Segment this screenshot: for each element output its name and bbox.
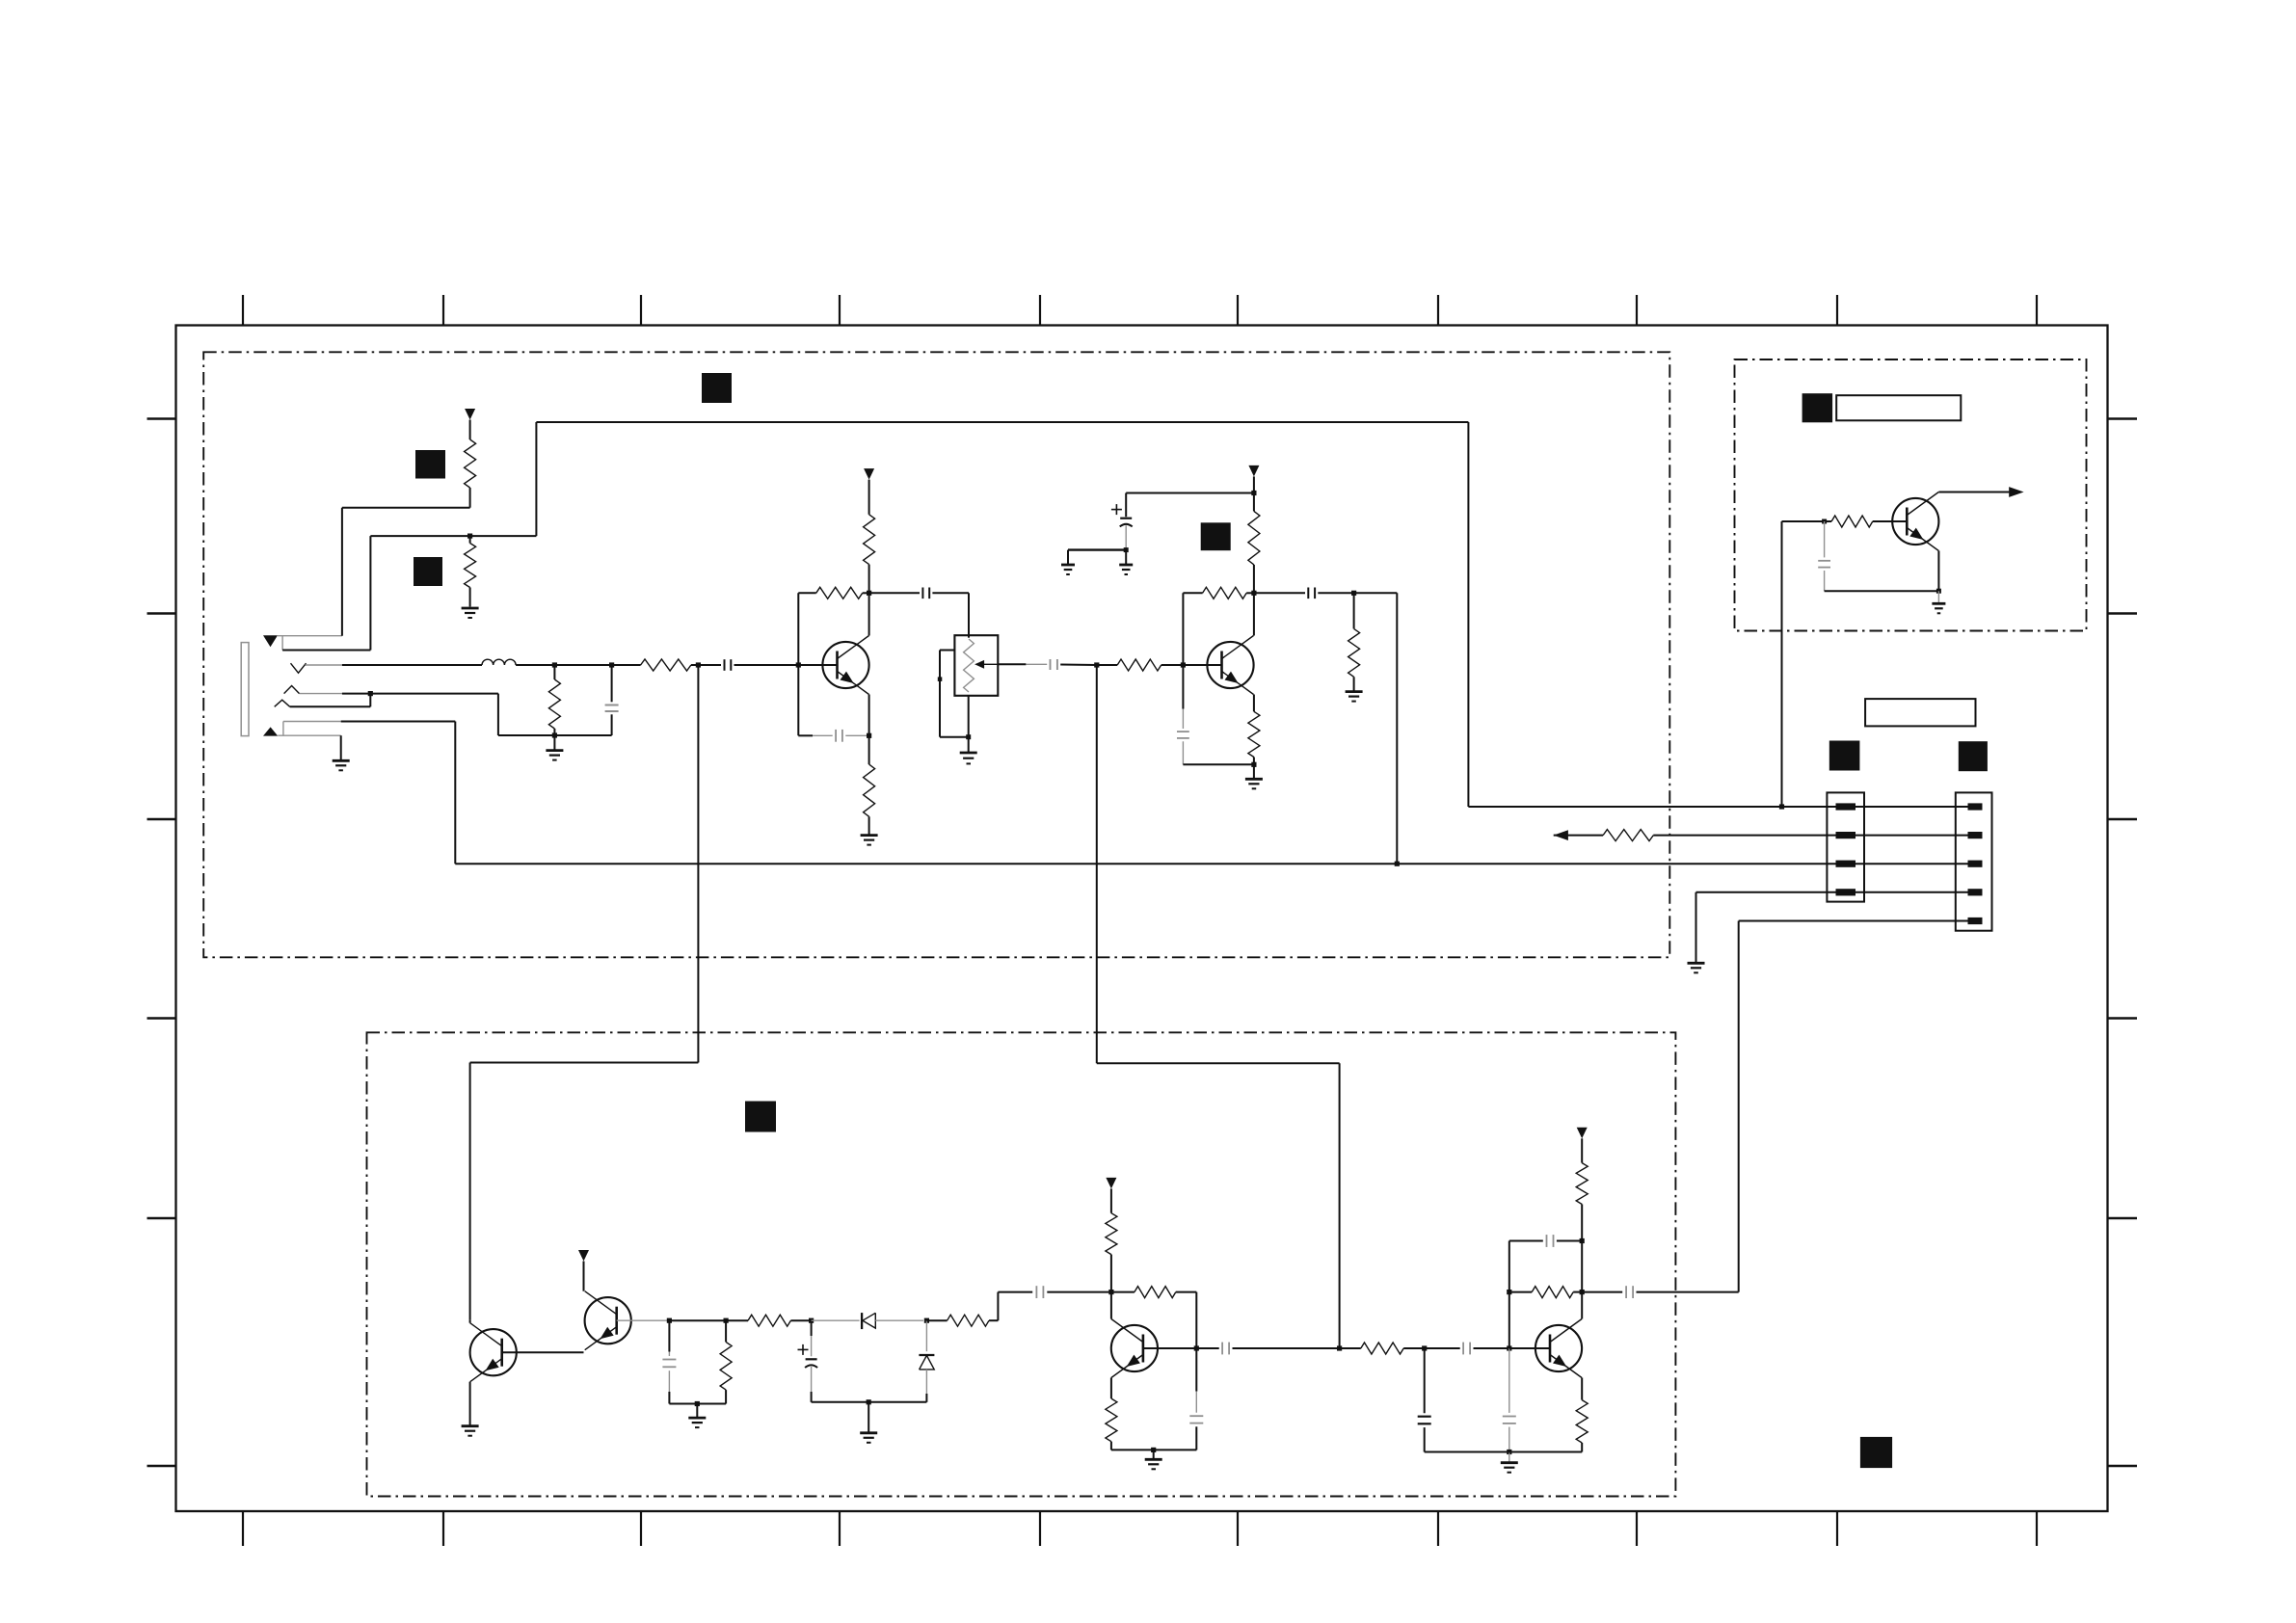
wire R4 to node3: [691, 664, 699, 666]
wire Q5 emitter lead: [1937, 551, 1939, 592]
wire R7 to Q2 base: [1161, 664, 1184, 666]
node rail d ground: [1507, 1450, 1511, 1454]
connector CN2 pins: [1968, 803, 1983, 924]
page border frame: [176, 326, 2108, 1512]
border tick marks: [147, 295, 2138, 1546]
wire Q9 base lead: [1509, 1347, 1550, 1349]
node Q9 fb left: [1507, 1290, 1511, 1294]
ground below rail a: [688, 1404, 706, 1428]
label box mid-right (blank): [1865, 699, 1975, 726]
node main/R3: [552, 662, 557, 667]
capacitor C8 (coupling): [1308, 588, 1315, 599]
wire a-b: [669, 1319, 726, 1321]
label square (redacted) R2: [414, 557, 442, 586]
ground below Q2 emitter: [1245, 764, 1263, 788]
connector CN1 pins: [1836, 803, 1856, 895]
wire R14 to CN pin2: [1653, 835, 1967, 837]
wire Q1 fb row left: [798, 592, 815, 594]
node Q2 collector: [1251, 591, 1256, 596]
capacitor C7 (base bypass): [1177, 665, 1189, 764]
wire shield to rail SH: [341, 722, 456, 865]
wire d to R17: [926, 1319, 947, 1321]
wire feed node to R7: [1097, 664, 1117, 666]
node rail c ground: [1151, 1448, 1156, 1452]
wire Q1 emitter lead: [868, 695, 870, 736]
node interstage f: [1422, 1345, 1427, 1350]
wire Q2 emitter lead: [1253, 695, 1255, 712]
wire Q9 out row: [1582, 1291, 1622, 1293]
ground below R3: [546, 735, 563, 760]
diode D1: [862, 1313, 875, 1329]
wire C4 to feed node: [1060, 664, 1097, 667]
wire tip to inductor (gray): [306, 664, 342, 666]
node Q8 base: [1194, 1345, 1199, 1350]
arrow Q5 output: [2009, 487, 2023, 497]
node Q1 emitter: [867, 733, 871, 738]
transistor Q8: [1111, 1319, 1158, 1378]
resistor R9 (feedback): [1203, 587, 1247, 599]
wire L1 to node1: [516, 664, 554, 666]
capacitor C10 (to rail): [662, 1320, 676, 1403]
wire f to C16: [1425, 1347, 1460, 1349]
resistor R13 (Q5 base): [1825, 516, 1908, 527]
wire node1-node2: [554, 664, 611, 666]
wire C16 to Q9 base: [1474, 1347, 1509, 1349]
diode D2: [919, 1320, 934, 1402]
node ring junction: [368, 691, 373, 696]
block outline: bottom preamp section: [367, 1032, 1676, 1496]
inductor L1: [482, 659, 516, 665]
node diode net c: [809, 1318, 814, 1323]
connector CN1 body: [1827, 792, 1864, 901]
resistor R4 (series): [641, 659, 691, 671]
capacitor C17 (Q9 base bypass): [1503, 1348, 1516, 1452]
node main/C1: [609, 662, 614, 667]
node Q8 collector: [1108, 1290, 1113, 1294]
capacitor C15 (to rail): [1418, 1348, 1431, 1452]
wire Q6 collector lead: [469, 1319, 471, 1323]
wire Q9 emitter lead: [1581, 1378, 1583, 1400]
wire R21 to node f: [1403, 1347, 1425, 1349]
resistor R18 (collector load): [1106, 1213, 1117, 1255]
supply arrow above R1: [465, 409, 475, 420]
wire rail d: [1425, 1451, 1583, 1453]
ground below R8: [861, 836, 878, 845]
capacitor C1 (to rail): [605, 665, 619, 735]
wire collector node to C3: [869, 592, 920, 594]
node Q1 collector: [867, 591, 871, 596]
wire arrow to R1: [469, 420, 471, 440]
wire Q1 base lead: [798, 664, 837, 666]
wire ring1: [342, 693, 370, 695]
wire emitter to R8: [868, 735, 870, 764]
wire CN pin1: [1782, 806, 1968, 808]
wire Q2 out row: [1254, 592, 1305, 594]
label square (redacted) R1: [415, 450, 445, 479]
node rail b ground: [867, 1399, 871, 1404]
wire node2 to R4: [612, 664, 641, 666]
jack J1 body: [241, 643, 249, 736]
node Q7 base net a: [667, 1318, 672, 1323]
ground below Q5: [1932, 591, 1945, 613]
wire R24 to rail d: [1581, 1443, 1583, 1452]
plus sign C6: [1111, 504, 1122, 515]
wire arrow to R14: [1554, 835, 1603, 837]
resistor R23 (collector load): [1576, 1163, 1588, 1205]
wire sleeve to ground (gray): [278, 734, 341, 736]
node interstage e: [1337, 1345, 1342, 1350]
trimmer RV1 wiper arrow: [974, 660, 998, 669]
wire Q6 emitter lead: [469, 1382, 471, 1426]
wire cold rail: [498, 734, 612, 736]
wire C9 to emitter: [1825, 590, 1939, 592]
wire Q7 base lead (gray): [617, 1319, 670, 1321]
wire net B to top rail: [470, 422, 1782, 807]
resistor R3 (to ground): [548, 665, 560, 735]
wire CN pin4 to ground: [1696, 892, 1968, 963]
resistor R17: [948, 1315, 989, 1326]
wire ring1 (gray): [300, 693, 342, 695]
capacitor C12 (coupling): [1036, 1286, 1043, 1298]
label box top-right (blank): [1836, 395, 1961, 420]
wire supply to R18: [1110, 1188, 1112, 1212]
capacitor C16 (coupling): [1463, 1343, 1470, 1355]
resistor R14: [1603, 830, 1653, 841]
node trimmer bottom: [966, 734, 971, 739]
wire Q9 fb vertical: [1508, 1292, 1510, 1348]
wire shield (gray): [283, 721, 341, 723]
resistor R21: [1361, 1343, 1403, 1354]
wire Q2 base lead: [1183, 664, 1221, 666]
plus sign C11: [798, 1344, 809, 1355]
transistor Q2: [1207, 636, 1253, 695]
wire feed1 down: [470, 665, 699, 1319]
node Q2 base: [1181, 662, 1186, 667]
wire decouple branch: [1126, 493, 1254, 518]
ground below rail d: [1501, 1452, 1518, 1473]
wire C7 to emitter node: [1183, 763, 1254, 765]
jack tip contact chevron: [291, 663, 307, 673]
block outline: mic amp section: [203, 352, 1669, 957]
node Q5 base: [1822, 519, 1827, 524]
node supply/decouple: [1251, 491, 1256, 495]
label square (redacted) CN1: [1829, 741, 1860, 771]
wire sleeve stub: [282, 722, 284, 736]
wire Q2 base vertical up: [1182, 593, 1184, 665]
node R2 top junction: [467, 534, 472, 539]
wire C12 to Q8 collector node: [1047, 1291, 1111, 1293]
wire b to R16: [726, 1319, 748, 1321]
label square (redacted) bottom right: [1860, 1437, 1892, 1468]
node Q9 base: [1507, 1345, 1511, 1350]
jack ring contact chevron 1: [284, 686, 300, 694]
wire C19 to CN pin5 net: [1637, 1291, 1739, 1293]
ground below trimmer: [960, 737, 977, 764]
capacitor C13 (Q8 base bypass): [1189, 1348, 1203, 1450]
wire node3 to C2: [698, 664, 721, 666]
capacitor C3 (coupling): [922, 588, 929, 599]
jack ring contact chevron 2: [275, 700, 290, 706]
label square (redacted) top box: [702, 373, 732, 403]
wire C18 row: [1509, 1241, 1543, 1292]
wire R18 to collector node: [1110, 1255, 1112, 1292]
wire C2 to Q1 base: [734, 664, 799, 666]
transistor Q6 (mute): [470, 1323, 517, 1382]
resistor R2: [465, 536, 476, 606]
jack J1 pin1 marker (triangle down): [263, 635, 278, 647]
wire Q2 collector lead: [1253, 593, 1255, 635]
wire Q1 collector lead: [868, 593, 870, 635]
node SH rail junction: [1395, 862, 1400, 866]
wire Q8 emitter lead: [1110, 1378, 1112, 1399]
node R3/ground rail: [552, 732, 557, 737]
capacitor C6 (electrolytic): [1120, 519, 1133, 550]
node C6 bottom: [1124, 547, 1129, 552]
wire ring junction to rail drop: [370, 693, 498, 695]
capacitor C2 (coupling): [725, 659, 732, 671]
wire tip to inductor: [342, 664, 482, 666]
wire D1 to node d (gray): [875, 1319, 923, 1321]
wire rail c: [1111, 1449, 1197, 1450]
node Q7 base net b: [724, 1318, 729, 1323]
supply arrow above Q1: [864, 468, 874, 480]
resistor R16: [748, 1315, 790, 1326]
supply arrow above Q8: [1106, 1178, 1116, 1189]
node Q1 base: [796, 662, 801, 667]
resistor R5 (feedback): [816, 587, 863, 599]
resistor R1: [465, 439, 476, 488]
node rail a ground: [695, 1401, 700, 1406]
wire trimmer loop: [940, 679, 969, 737]
wire Q2 fb row: [1183, 592, 1202, 594]
label square (redacted) Q2: [1201, 522, 1231, 550]
wire fb to Q2 collector node: [1246, 592, 1254, 594]
wire jack pin2 to R2 (net B): [282, 536, 470, 650]
label square (redacted) top-right box: [1802, 393, 1833, 422]
wire rail b: [812, 1401, 927, 1403]
node main/feed1: [696, 662, 701, 667]
node output/load: [1351, 591, 1356, 596]
transistor Q7: [585, 1291, 631, 1350]
wire C3 to trimmer: [932, 593, 969, 637]
node trimmer tap: [938, 677, 943, 681]
wire R1 to net A: [469, 488, 471, 508]
wire R6 to supply: [868, 480, 870, 515]
wire R10 to supply node: [1253, 493, 1255, 512]
wire supply node up: [1253, 476, 1255, 492]
wire rail a: [669, 1403, 726, 1405]
ground below R12: [1346, 692, 1363, 702]
resistor R6 (collector load): [864, 515, 875, 565]
resistor R15 (to rail): [720, 1320, 732, 1403]
resistor R24 (emitter): [1576, 1400, 1588, 1443]
wire feed2 down: [1097, 665, 1340, 1348]
wire base net down to CN: [1781, 521, 1783, 807]
node Q2 emitter: [1251, 762, 1256, 767]
wire Q6 base to Q7 emitter: [503, 1351, 584, 1353]
wire C18 to collector: [1557, 1240, 1582, 1242]
ground below Q6: [462, 1426, 479, 1436]
wire c to D1 (gray): [812, 1319, 860, 1321]
wire R11 to emitter node: [1253, 758, 1255, 765]
capacitor C11 (electrolytic): [805, 1320, 817, 1402]
wire Q9 collector lead: [1581, 1205, 1583, 1319]
node main/feed2: [1094, 662, 1099, 667]
wire Q8 collector lead: [1110, 1292, 1112, 1319]
supply arrow above Q2: [1248, 466, 1259, 477]
wire jack pin1 to R1 (net A): [278, 508, 470, 636]
wire output to SH rail: [1354, 593, 1398, 864]
node C18/collector: [1580, 1238, 1585, 1243]
wire e to R21: [1340, 1347, 1361, 1349]
capacitor C4 (coupling): [1051, 659, 1057, 670]
wire Q5 base left: [1782, 520, 1825, 522]
block outline: top-right buffer section: [1735, 359, 2087, 631]
label square (redacted) CN2: [1959, 741, 1988, 771]
ground left of C6: [1061, 550, 1075, 574]
wire CN pin5 down: [1739, 921, 1968, 1292]
ground below rail b: [860, 1402, 877, 1443]
wire fb to collector node: [863, 592, 869, 594]
node Q5 emitter: [1936, 589, 1941, 594]
capacitor C5 (bypass, gray): [798, 730, 868, 742]
ground below R2: [462, 608, 479, 618]
wire Q1 base vertical: [797, 593, 799, 735]
wire R17 elbow to C12: [989, 1292, 1032, 1321]
wire Q2 collector R up: [1253, 565, 1255, 593]
ground below C6: [1119, 550, 1133, 574]
wire Q5 collector lead: [1938, 492, 2009, 493]
resistor R19 (feedback): [1111, 1287, 1196, 1298]
wire ring2: [290, 694, 371, 707]
transistor Q9: [1535, 1319, 1582, 1378]
node diode net d: [924, 1318, 929, 1323]
resistor R10 (collector load): [1248, 511, 1260, 565]
node Q9 collector: [1580, 1290, 1585, 1294]
ground below rail c: [1145, 1450, 1162, 1469]
trimmer RV1 element: [964, 639, 974, 692]
jack pin5 marker (triangle up): [263, 727, 278, 735]
capacitor C18 (feedback): [1547, 1235, 1554, 1247]
ground below jack: [333, 760, 350, 770]
wire C8 to node: [1318, 592, 1353, 594]
wire R16 to node c: [790, 1319, 811, 1321]
capacitor C19 (output coupling): [1626, 1286, 1633, 1298]
wire pin3 net to rail: [497, 694, 499, 735]
transistor Q1: [822, 636, 868, 695]
wire R20 to rail c: [1110, 1442, 1112, 1450]
arrow output pin2: [1554, 830, 1568, 840]
trimmer left stub: [940, 651, 954, 679]
resistor R20 (emitter): [1106, 1398, 1117, 1442]
wire C14 to node e: [1233, 1347, 1340, 1349]
wire C6 ground bus: [1068, 548, 1126, 550]
connector CN2 body: [1956, 792, 1992, 930]
resistor R12 (load): [1348, 593, 1360, 691]
wire trimmer out: [998, 663, 1047, 665]
wire fb down to Q8 base: [1195, 1292, 1197, 1348]
transistor Q5: [1892, 492, 1938, 551]
wire collector R up: [868, 565, 870, 594]
capacitor C14 (coupling): [1222, 1343, 1229, 1355]
trimmer RV1 box: [954, 635, 998, 696]
resistor R8 (emitter): [864, 764, 875, 816]
wire Q7 collector lead: [583, 1262, 585, 1291]
wire jack pin1 drop: [281, 636, 283, 651]
supply arrow above Q7: [578, 1250, 589, 1262]
resistor R22 (feedback): [1509, 1287, 1582, 1298]
ground below CN pin4: [1688, 963, 1705, 972]
capacitor C9 (Q5 base bypass): [1818, 521, 1830, 591]
label square (redacted) bottom box: [745, 1102, 776, 1132]
resistor R7 (Q2 base): [1117, 659, 1161, 671]
node CN pin1 junction: [1779, 804, 1784, 809]
wire sleeve ground drop: [340, 735, 342, 760]
wire R8 to ground: [868, 816, 870, 835]
wire trimmer bottom: [968, 696, 970, 737]
resistor R11 (emitter): [1248, 711, 1260, 757]
wire Q8 base lead: [1143, 1347, 1196, 1349]
supply arrow above Q9: [1577, 1128, 1588, 1139]
wire R23 to supply: [1581, 1138, 1583, 1162]
wire Q8 base to C14: [1196, 1347, 1218, 1349]
wire SH rail to CN pin3: [455, 863, 1967, 865]
